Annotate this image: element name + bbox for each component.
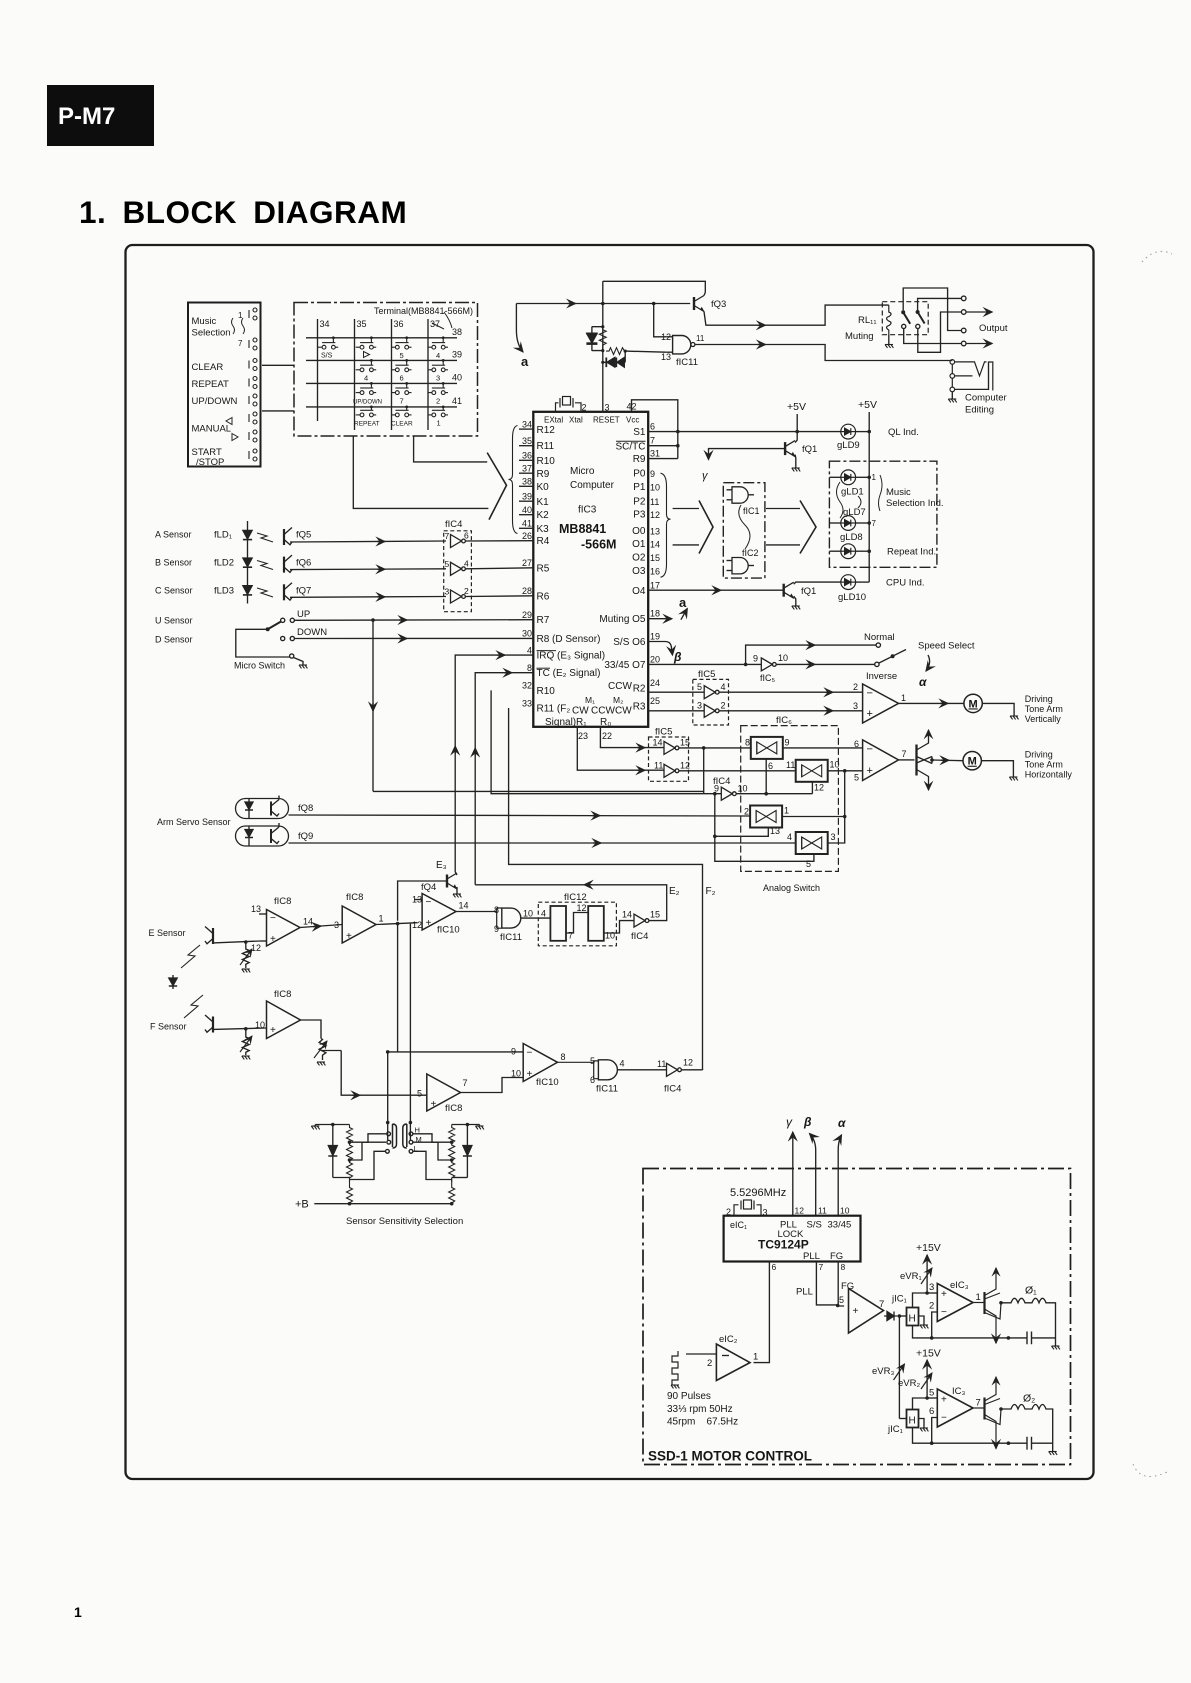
svg-text:P0: P0 [633,469,646,480]
svg-text:H: H [909,1416,916,1427]
wire RESET pin3 vertical [602,281,604,412]
svg-text:34: 34 [320,319,330,329]
AND gate fIC2 [727,558,755,574]
wire Vcc pin42 loop to right bus [632,400,678,459]
wire top rail to fQ3 collector [603,281,706,292]
svg-text:γ: γ [786,1115,793,1129]
wire C sensor row [290,596,446,599]
svg-text:5: 5 [417,1089,422,1099]
svg-text:+5V: +5V [787,401,806,413]
svg-text:α: α [919,675,927,689]
svg-text:5: 5 [590,1056,595,1066]
wire in13 stub [259,913,267,915]
svg-text:C Sensor: C Sensor [155,586,193,596]
svg-text:P-M7: P-M7 [58,103,115,130]
svg-text:14: 14 [303,917,313,927]
normal terminal [876,643,880,647]
buffer fIC4 3-2 [451,590,466,603]
svg-text:gLD1: gLD1 [841,487,864,498]
svg-text:fIC2: fIC2 [742,548,759,558]
micro switch contact [290,654,294,658]
AND gate fIC1 [727,487,755,503]
svg-text:17: 17 [650,581,660,591]
svg-text:S/S: S/S [807,1220,822,1231]
svg-text:fQ8: fQ8 [298,803,313,814]
svg-text:R9: R9 [537,469,550,480]
buffer fIC8 e2 [342,906,376,943]
svg-text:fQ6: fQ6 [296,558,311,569]
svg-text:10: 10 [778,653,788,663]
svg-text:5: 5 [929,1388,934,1399]
computer editing jack [950,360,993,392]
svg-text:8: 8 [745,738,750,748]
svg-text:+B: +B [295,1199,309,1211]
svg-text:eIC₃: eIC₃ [950,1280,969,1291]
label Music Selection [192,311,244,348]
brace pins 34-41 [509,426,518,534]
svg-text:4: 4 [721,682,726,692]
overlines IRQ TC [537,650,557,652]
manual right triangle [232,434,238,441]
+B feed [314,1203,451,1205]
svg-text:Sensor Sensitivity Selection: Sensor Sensitivity Selection [346,1216,463,1227]
SSD-1 motor control box [643,1169,1071,1465]
right bottom resistor [449,1180,455,1206]
wire AND out to fIC12 [521,917,551,919]
svg-text:fQ1: fQ1 [802,444,817,455]
wire inverter4 to opamp1 in2 [720,691,863,693]
svg-text:41: 41 [452,396,462,406]
svg-text:Normal: Normal [864,632,895,643]
svg-text:11: 11 [818,1206,827,1216]
bus arrow head to MCU [487,453,506,520]
wire a-signal to fQ3 base [516,303,690,305]
svg-text:O0: O0 [632,526,646,537]
analog switch asw4 [796,832,828,854]
svg-text:fIC4: fIC4 [664,1084,681,1095]
svg-text:eVR₂: eVR₂ [898,1378,920,1389]
keypad row line 41 [306,406,457,408]
svg-text:MB8841: MB8841 [559,522,606,536]
svg-text:−: − [941,1413,947,1424]
svg-text:gLD8: gLD8 [840,532,863,543]
wire contact1 to output3 [903,288,961,331]
key 7 [391,382,412,405]
svg-text:3: 3 [445,587,450,597]
omitted LEDs squiggle [837,482,862,518]
overline SC/TC [616,440,646,442]
svg-text:1: 1 [753,1352,758,1363]
wire IC3 in5 [927,1397,937,1399]
LED gLD8 [829,550,840,552]
variable resistor E sense [242,942,249,968]
label Music Selection Ind. [886,487,944,509]
wire IRQ E3 feed [455,655,533,872]
wire normal branch [746,645,876,664]
scan artifact arc top right [1142,251,1172,262]
svg-text:Tone Arm: Tone Arm [1025,704,1063,714]
svg-text:41: 41 [522,519,532,529]
svg-text:8: 8 [494,905,499,915]
omitted gates squiggle [739,505,750,549]
keypad row line 39 [306,359,457,361]
wire buffer f2 out [461,1078,524,1093]
svg-text:Inverse: Inverse [866,671,897,682]
wire E sensor to opamp [213,941,260,943]
squiggle multi-mark [232,318,245,334]
wire opamp2 to driver bases [899,759,915,761]
MCU right pin numbers [650,422,660,707]
svg-text:12: 12 [683,1058,693,1068]
svg-text:fIC10: fIC10 [437,925,460,936]
phototransistor E [205,927,213,945]
svg-text:20: 20 [650,654,660,664]
svg-text:R₁: R₁ [576,717,587,728]
wire asw1 pin6 control [765,759,767,794]
wire contact2 to output1 [918,298,962,310]
svg-text:S/S O6: S/S O6 [613,637,646,648]
svg-text:R11 (F₂: R11 (F₂ [537,704,571,715]
label Driving Tone Arm Horizontally [1025,750,1073,780]
analog switch asw1 [751,737,783,759]
wire H top to eIC3 in3 [913,1293,928,1308]
svg-text:10: 10 [738,784,748,794]
wire asw4 out rise [828,817,845,844]
svg-text:11: 11 [786,760,795,770]
buffer pack fIC4 a box [444,531,472,612]
svg-text:+: + [426,918,432,929]
svg-text:2: 2 [436,396,440,405]
svg-text:1: 1 [784,806,789,816]
svg-text:SC/TC: SC/TC [616,441,646,452]
UD switch arm [268,622,281,630]
svg-text:15: 15 [650,553,660,563]
svg-text:11: 11 [696,334,705,343]
driver pair lower [973,1377,1001,1443]
AND gate fIC11b [502,908,521,928]
wire pin23 to fIC5b-11 [577,727,664,770]
wire fQ3 emitter to relay coil [704,305,889,325]
svg-text:−: − [867,744,873,756]
svg-text:fQ1: fQ1 [801,586,816,597]
svg-text:fIC4: fIC4 [631,931,648,942]
svg-text:7: 7 [976,1398,981,1409]
svg-text:E₂: E₂ [669,886,680,897]
svg-text:A Sensor: A Sensor [155,530,192,540]
wire node down long [388,924,411,1140]
wire R11 F2 feed [509,708,703,1070]
transistor fQ4 [447,873,457,889]
left resistor chain [347,1125,353,1182]
svg-text:Repeat Ind.: Repeat Ind. [887,547,936,558]
svg-text:CLEAR: CLEAR [391,421,413,428]
svg-text:3: 3 [436,374,440,383]
analog switch asw3 [750,806,782,828]
amp jIC buffer [849,1289,884,1334]
light arrows B [257,561,273,570]
key 5 [391,336,412,360]
motor M horizontal [963,752,981,770]
wire asw2 out to opamp2 in5 [828,770,863,772]
op-amp fIC8 f1 [267,1001,301,1039]
svg-text:38: 38 [522,477,532,487]
crystal X1 [556,397,582,412]
svg-text:CLEAR: CLEAR [192,362,224,373]
wire contact1 bottom to output4 [904,329,962,344]
svg-text:K3: K3 [537,524,550,535]
MCU bottom cluster labels CCW M1 M2 CW R1 Ro [572,681,632,728]
keypad column line 37 [427,319,429,430]
svg-text:/STOP: /STOP [196,457,224,468]
svg-text:4: 4 [620,1059,625,1069]
svg-text:+15V: +15V [916,1348,941,1360]
diode after amp [884,1312,898,1321]
keypad column line 34 [317,319,319,421]
svg-text:5: 5 [854,773,859,783]
svg-text:Ø₂: Ø₂ [1023,1393,1035,1405]
svg-text:fIC11: fIC11 [676,357,698,368]
svg-text:Muting: Muting [845,331,874,342]
svg-text:1: 1 [437,419,441,428]
svg-text:7: 7 [650,436,655,446]
svg-text:R3: R3 [633,701,646,712]
svg-text:a: a [679,595,687,610]
wire inverse branch [777,663,875,665]
svg-text:CCW: CCW [608,681,632,692]
optocoupler fQ9 [236,823,289,846]
wire fQ1a collector to rail [795,432,797,443]
svg-text:CW: CW [615,706,632,717]
H block lower [907,1410,919,1428]
svg-text:90 Pulses: 90 Pulses [667,1391,711,1402]
svg-text:S/S: S/S [321,353,333,360]
svg-text:+15V: +15V [916,1242,941,1254]
wire fQ8 to asw3 [289,815,751,816]
inverter fIC5 11-12 [664,764,679,777]
svg-text:9: 9 [753,654,758,664]
svg-text:7: 7 [445,531,450,541]
svg-text:Vertically: Vertically [1025,714,1062,724]
svg-text:1: 1 [379,914,384,924]
svg-text:12: 12 [814,783,824,793]
eVR1 [926,1264,928,1293]
svg-text:30: 30 [522,629,532,639]
bus arrow drivers to LEDs [800,501,816,554]
brace music selection LEDs [879,475,883,511]
svg-text:R₀: R₀ [600,717,611,728]
left bottom resistor [347,1180,353,1206]
wire alpha up [838,1135,841,1216]
svg-text:19: 19 [650,631,660,641]
variable resistor F sense [242,1029,249,1055]
control panel box [188,303,261,467]
wire beta up [810,1134,816,1216]
wire UP row to R7 pin29 [294,619,533,622]
svg-text:10: 10 [605,931,615,941]
svg-text:3: 3 [929,1282,934,1293]
svg-text:18: 18 [650,609,660,619]
svg-text:O1: O1 [632,539,646,550]
svg-text:9: 9 [494,924,499,934]
svg-text:6: 6 [772,1262,777,1272]
svg-text:REPEAT: REPEAT [354,421,380,428]
bus lines drivers to LED arrow [766,508,800,510]
wire S/S O6 pin19 beta [648,642,672,656]
light path F [184,995,203,1018]
svg-text:8: 8 [561,1052,566,1062]
svg-text:+: + [527,1069,533,1080]
svg-text:33: 33 [522,698,532,708]
wire A sensor row [290,541,446,542]
wire 33/45 O7 pin20 [648,663,761,665]
wire fIC11 input12 from base line [654,304,667,337]
svg-text:fIC8: fIC8 [274,896,291,907]
inverter fIC4d 14-15 [634,914,649,927]
svg-text:13: 13 [251,904,261,914]
transistor fQ3 [694,296,704,312]
svg-text:+: + [867,708,873,720]
label Driving Tone Arm Vertically [1025,694,1063,724]
output terminal 1 [961,296,966,301]
svg-text:11: 11 [650,497,659,507]
wire fQ1a base gamma [709,449,786,460]
svg-text:P1: P1 [633,482,646,493]
svg-text:27: 27 [522,558,532,568]
svg-text:33/45: 33/45 [828,1220,852,1231]
wire buffer6 to R4 pin26 [466,540,534,542]
svg-text:UP: UP [297,609,310,620]
wire F sensor to opamp [213,1028,267,1029]
inverter pack fIC5 b box [649,737,689,781]
wire micro switch branch [236,629,290,657]
transistor fQ1 b [784,582,794,598]
svg-text:Music: Music [192,316,217,327]
op-amp IC3 [937,1389,973,1427]
svg-text:16: 16 [650,566,660,576]
svg-text:7: 7 [463,1078,468,1088]
wire pin22 to fIC5b-14 [600,727,664,748]
wire fQ1b emitter ground [794,596,796,606]
wire junction to analog area [373,790,704,792]
svg-text:F Sensor: F Sensor [150,1022,187,1032]
speed select switch arm [879,650,906,664]
LED fLD1 [243,530,252,539]
svg-text:32: 32 [522,681,532,691]
svg-text:36: 36 [522,451,532,461]
svg-text:fIC10: fIC10 [536,1077,559,1088]
wire buffer out node [376,923,417,925]
svg-text:14: 14 [653,738,663,748]
wire node to lower channel [898,1316,900,1419]
motor M vertical [964,694,982,712]
svg-text:-566M: -566M [581,538,616,552]
ground relay coil [885,345,893,348]
svg-text:R7: R7 [537,615,550,626]
wire UP junction down [372,620,374,791]
wire AND2 out to fIC4e [617,1069,666,1071]
svg-text:Xtal: Xtal [569,416,583,425]
op-amp U horizontal drive [863,740,899,781]
svg-text:26: 26 [522,531,532,541]
svg-text:O4: O4 [632,586,646,597]
svg-text:CCW: CCW [591,706,615,717]
svg-text:E Sensor: E Sensor [149,928,186,938]
svg-text:R9: R9 [633,454,646,465]
svg-text:4: 4 [436,351,440,360]
svg-text:CW: CW [572,706,589,717]
svg-text:3: 3 [853,701,858,711]
svg-text:8: 8 [527,663,532,673]
svg-text:12: 12 [650,510,660,520]
bus lines MCU ports to arrow [673,508,699,510]
svg-text:B Sensor: B Sensor [155,558,192,568]
svg-text:fQ3: fQ3 [711,299,726,310]
key S/S [318,336,339,359]
svg-text:β: β [803,1115,812,1129]
svg-text:Ø₁: Ø₁ [1025,1285,1037,1297]
svg-text:45rpm 67.5Hz: 45rpm 67.5Hz [667,1417,738,1428]
LED gLD7 [829,522,840,524]
svg-text:Driving: Driving [1025,750,1053,760]
wire fIC5b-15 to asw1 [679,747,751,749]
wire fIC11 output to computer editing line [695,345,952,361]
svg-text:MANUAL: MANUAL [192,424,232,435]
crystal X2 [734,1200,761,1216]
label START/STOP [192,447,225,468]
svg-text:15: 15 [650,910,660,920]
wire panel to keypad CLEAR row [262,364,294,366]
svg-text:Analog Switch: Analog Switch [763,883,820,893]
svg-text:5: 5 [400,351,404,360]
keypad row line 38 [306,337,457,339]
svg-text:IRQ (E₃ Signal): IRQ (E₃ Signal) [537,651,606,662]
output terminal 2 with arrow [961,310,966,315]
svg-text:10: 10 [650,483,660,493]
svg-text:14: 14 [650,539,660,549]
svg-text:fQ7: fQ7 [296,586,311,597]
svg-text:fIC3: fIC3 [578,505,597,516]
svg-text:Terminal(MB8841-566M): Terminal(MB8841-566M) [374,306,473,316]
svg-text:RL₁₁: RL₁₁ [858,315,877,326]
eVR3 [894,1364,905,1380]
svg-text:QL Ind.: QL Ind. [888,427,919,438]
left diode [328,1125,337,1178]
wire eIC3 in3 [927,1292,937,1294]
svg-text:7: 7 [238,339,243,348]
svg-text:3: 3 [697,701,702,711]
op-amp fIC10 f [523,1044,557,1082]
svg-text:K2: K2 [537,510,550,521]
svg-text:eIC₂: eIC₂ [719,1334,738,1345]
svg-text:2: 2 [582,403,587,413]
lower channel rail [913,1428,1009,1444]
output terminal 4 with arrow [961,341,966,346]
svg-text:fQ9: fQ9 [298,831,313,842]
wire fIC11 input13 [625,351,666,352]
svg-text:P3: P3 [633,510,646,521]
svg-text:R10: R10 [537,686,556,697]
svg-text:37: 37 [522,464,532,474]
svg-text:8: 8 [841,1262,846,1272]
svg-text:9: 9 [511,1047,516,1057]
inverter fIC5 14-15 [664,741,679,754]
inverter fIC4e 11-12 [667,1063,682,1076]
svg-text:−: − [270,913,276,924]
svg-text:TC9124P: TC9124P [758,1238,809,1252]
svg-text:PLL: PLL [803,1251,820,1262]
wire fQ9 to asw4 [289,842,796,844]
coupling LED EF [169,975,177,989]
